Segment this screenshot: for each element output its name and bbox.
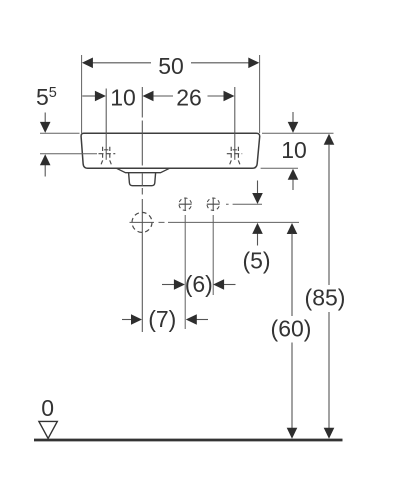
dimension (5): lower arrow <box>257 234 259 246</box>
dimension 50: extension line right <box>259 55 261 133</box>
svg-text:(5): (5) <box>242 247 270 273</box>
dimension (5): upper arrow <box>257 181 259 194</box>
dimension 50: extension line left <box>81 55 83 133</box>
fixing hole right: cross <box>207 198 220 211</box>
dimension (6): right arrow <box>224 284 236 286</box>
dimension 26: line <box>153 95 224 97</box>
dimension (7): left arrow <box>122 319 132 321</box>
dimension 26: arrowhead left <box>143 91 154 102</box>
dimension (85): upper arrowhead <box>324 134 335 145</box>
dimension 10 right: upper extension line <box>262 132 334 134</box>
dimension 26: arrowhead right <box>224 91 235 102</box>
basin bottom saucer <box>117 168 170 172</box>
tap hole right: horizontal dashed centerline <box>227 153 242 155</box>
tap hole right: dashed cone <box>229 147 241 167</box>
fixing hole left extension line <box>184 215 186 329</box>
fixing hole left: cross <box>179 198 192 211</box>
dimension 10 right: lower extension line <box>261 167 298 169</box>
dimension (7): right arrow <box>196 319 208 321</box>
svg-text:50: 50 <box>158 53 184 79</box>
svg-text:10: 10 <box>110 85 136 111</box>
dimension (85): line lower <box>328 312 330 428</box>
dimension 50: line <box>93 62 249 64</box>
svg-text:(85): (85) <box>305 284 346 310</box>
fixing hole left: dashed circle <box>177 196 193 212</box>
tap hole right: top tick <box>233 149 237 151</box>
dimension 50: arrowhead right <box>248 58 259 69</box>
dimension 5.5: upper arrow <box>44 113 46 123</box>
washbasin outline <box>81 133 260 168</box>
fixing hole right extension line <box>212 215 214 295</box>
svg-text:26: 26 <box>176 85 202 111</box>
tap hole left: horizontal dashed centerline <box>99 153 116 155</box>
dimension (60): upper arrowhead <box>287 223 298 234</box>
tap hole left: dashed cone <box>100 147 112 167</box>
dimension (85): lower arrowhead <box>324 428 335 439</box>
svg-text:10: 10 <box>281 137 307 163</box>
dimension 50: arrowhead left <box>82 58 93 69</box>
centerline of basin (dash-dot vertical) <box>141 87 143 332</box>
dimension 5.5: lower extension line <box>40 153 97 155</box>
svg-text:(6): (6) <box>185 271 213 297</box>
dimension 5.5: lower arrow <box>44 165 46 177</box>
fixing hole right: dashed circle <box>205 196 221 212</box>
dimension (60): line upper <box>291 234 293 317</box>
dimension (85): line upper <box>328 144 330 285</box>
tap hole right: centerline <box>234 87 236 160</box>
tap hole left: centerline <box>105 89 107 160</box>
dimension (6): left arrow <box>162 284 174 286</box>
dimension 10 top: arrowhead <box>95 91 106 102</box>
dimension 10 right: upper arrow <box>292 112 294 123</box>
dimension 10 top: line and tail <box>82 95 95 97</box>
fixing holes level line <box>226 203 262 205</box>
drain pipe circle horizontal centerline <box>130 221 155 223</box>
svg-text:(60): (60) <box>271 315 312 341</box>
dimension 10 right: lower arrow <box>292 179 294 190</box>
svg-text:0: 0 <box>41 395 54 421</box>
drain pipe level line <box>159 221 300 223</box>
dimension (60): lower arrowhead <box>287 428 298 439</box>
floor line <box>34 439 343 442</box>
datum triangle <box>39 421 57 438</box>
drain spigot <box>129 173 156 186</box>
dimension (60): line lower <box>291 343 293 429</box>
drain pipe dashed circle <box>132 212 152 232</box>
dimension 5.5: upper extension line <box>40 132 80 134</box>
tap hole left: top tick <box>104 149 108 151</box>
svg-text:(7): (7) <box>148 306 176 332</box>
